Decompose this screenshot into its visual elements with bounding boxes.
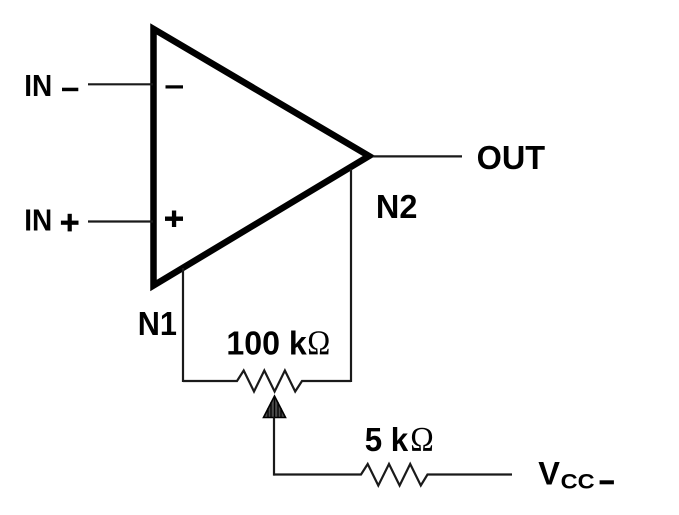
svg-text:Ω: Ω bbox=[410, 420, 434, 459]
op-amp U1 bbox=[154, 29, 370, 286]
wire IN+ to op-amp bbox=[88, 220, 153, 222]
wire op-amp output to OUT bbox=[373, 155, 462, 157]
svg-text:V: V bbox=[538, 455, 560, 491]
label VCC- power net bbox=[538, 455, 614, 493]
svg-text:5 k: 5 k bbox=[365, 421, 409, 458]
wire wiper to bottom rail bbox=[273, 418, 275, 476]
op-amp U1 inverting input symbol - bbox=[166, 85, 184, 88]
label IN- bbox=[24, 69, 78, 103]
potentiometer R1 wiper arrow bbox=[264, 396, 286, 418]
label 5 kOhm value bbox=[365, 420, 434, 459]
svg-text:Ω: Ω bbox=[307, 324, 330, 363]
svg-text:IN: IN bbox=[24, 69, 52, 103]
svg-text:100 k: 100 k bbox=[226, 325, 307, 362]
svg-text:OUT: OUT bbox=[477, 140, 546, 177]
svg-text:N1: N1 bbox=[138, 305, 177, 342]
resistor R2 5k with bottom rail wire bbox=[274, 464, 513, 486]
svg-text:N2: N2 bbox=[376, 188, 418, 225]
resistor R1 100k potentiometer body bbox=[183, 371, 351, 392]
wire node N1 vertical bbox=[182, 268, 184, 382]
label 100 kOhm value bbox=[226, 324, 330, 363]
wire IN- to op-amp bbox=[88, 83, 153, 85]
op-amp U1 non-inverting input symbol + bbox=[165, 211, 183, 228]
label IN+ bbox=[24, 203, 78, 237]
wire node N2 vertical bbox=[350, 169, 352, 382]
svg-text:CC: CC bbox=[561, 469, 595, 493]
svg-text:IN: IN bbox=[24, 203, 52, 237]
